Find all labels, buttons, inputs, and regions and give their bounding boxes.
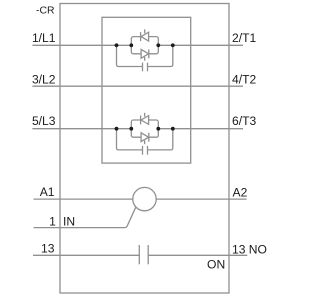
svg-text:ON: ON <box>207 258 225 272</box>
thyristor module box <box>102 17 191 163</box>
svg-text:6/T3: 6/T3 <box>232 114 256 128</box>
wire 13 left segment <box>33 254 139 256</box>
wire L3 left segment <box>32 128 131 130</box>
svg-text:IN: IN <box>63 214 75 228</box>
control coil circle <box>133 187 156 210</box>
wire A1 <box>34 198 133 200</box>
svg-text:4/T2: 4/T2 <box>232 72 256 86</box>
snubber branch wire L3 <box>117 129 173 150</box>
svg-text:5/L3: 5/L3 <box>32 114 56 128</box>
svg-text:A2: A2 <box>233 185 248 199</box>
thyristor V3 top (cathode left) <box>140 116 142 125</box>
svg-text:1/L1: 1/L1 <box>32 31 56 45</box>
wire L2 through line <box>32 85 243 87</box>
junction dots L3 <box>115 127 119 131</box>
thyristor V2 bottom (cathode right) <box>141 49 149 58</box>
wire 13 NO right segment <box>148 254 247 256</box>
thyristor V1 gate <box>144 29 146 33</box>
svg-text:-CR: -CR <box>36 6 55 17</box>
wire A2 <box>156 198 246 200</box>
thyristor V2 gate <box>144 57 146 61</box>
phase L3 thyristor pair frame <box>131 120 158 137</box>
thyristor V1 top (cathode left) <box>140 32 142 41</box>
junction dots L1 <box>115 43 119 47</box>
thyristor V4 gate <box>144 140 146 144</box>
phase L1 thyristor pair frame <box>131 37 158 54</box>
svg-text:3/L2: 3/L2 <box>32 72 56 86</box>
svg-text:13 NO: 13 NO <box>232 242 267 256</box>
snubber capacitor C1 <box>142 63 144 72</box>
svg-text:A1: A1 <box>40 185 55 199</box>
svg-text:1: 1 <box>49 214 56 228</box>
thyristor V3 gate <box>144 113 146 117</box>
snubber branch wire L1 <box>117 45 173 66</box>
thyristor V4 bottom (cathode right) <box>141 133 149 142</box>
wire T1 right segment <box>158 44 243 46</box>
relay output contact 13-NO <box>138 245 140 264</box>
wire L1 left segment <box>32 44 131 46</box>
svg-text:2/T1: 2/T1 <box>232 31 256 45</box>
svg-text:13: 13 <box>41 242 55 256</box>
wire T3 right segment <box>158 128 243 130</box>
snubber capacitor C2 <box>142 146 144 155</box>
device outline box <box>60 4 229 294</box>
wire IN with diagonal to coil <box>34 207 136 227</box>
